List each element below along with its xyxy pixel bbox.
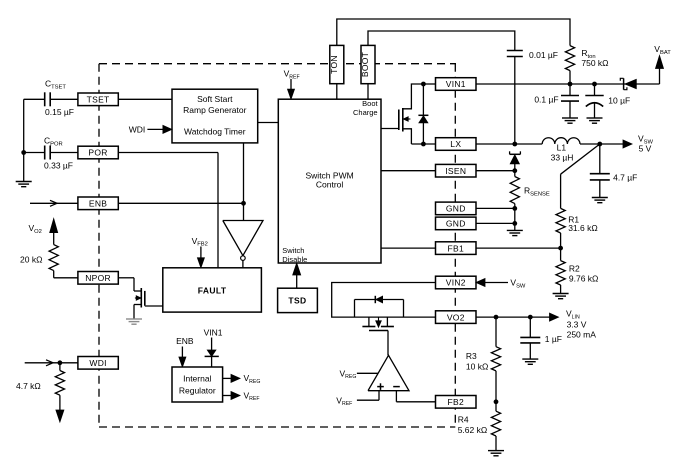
wire Q1 gate from PWM [381,128,399,130]
svg-text:Control: Control [316,180,344,190]
capacitor 0.01 uF bootstrap [507,50,523,52]
svg-text:VIN2: VIN2 [446,278,466,288]
ground R2 [553,293,569,295]
wire 0.1uF to ground [569,101,571,118]
arrow VREF into PWM [290,79,292,91]
ground 4.7 uF [592,197,608,199]
block internal regulator [172,367,223,402]
wire VSW to VIN2 [485,282,508,284]
wire VIN2 to pass FET [332,283,436,318]
block TSD [278,288,318,312]
svg-text:Ramp Generator: Ramp Generator [183,105,246,115]
pin FB1 [436,242,477,255]
wire NPOR to Q2 drain [118,277,134,279]
svg-text:31.6 kΩ: 31.6 kΩ [568,223,598,233]
capacitor 1 uF [529,317,531,337]
node VIN1/Q1 [421,82,426,87]
diode D4 VIN1 into regulator [211,338,213,351]
diode D1 body diode [422,84,424,144]
wire VSW diagonal to R1 [561,144,600,174]
resistor R1 31.6k [556,208,565,233]
pin GND1 [436,202,477,215]
svg-text:Soft Start: Soft Start [197,94,233,104]
pin TSET [78,93,118,106]
diode D3 across pass FET [354,300,356,318]
wire ENB input [30,202,78,204]
resistor R3 10k [495,317,497,347]
wire left ground rail [23,99,25,181]
ground R4 [488,450,504,452]
ground left rail [16,181,32,183]
svg-text:VO2: VO2 [29,223,42,235]
svg-text:VBAT: VBAT [654,44,671,56]
svg-text:VFB2: VFB2 [192,236,208,248]
wire GND2 row [476,222,515,224]
pin VIN1 [436,78,477,91]
ground 10 uF [587,117,603,119]
svg-text:FB2: FB2 [448,397,465,407]
svg-text:TON: TON [329,55,339,74]
IC boundary dashed outline (top edge) [99,63,456,65]
pin LX [436,138,477,151]
svg-text:RSENSE: RSENSE [524,186,550,198]
diode D5 reverse battery [623,78,625,89]
wire POR row left [24,152,45,154]
wire CPOR to POR pin [50,152,78,154]
wire soft-start bottom to ENB node [243,143,245,203]
wire WDI input [25,362,78,364]
wire TON to PWM [336,84,338,100]
wire L1 to VSW [580,143,624,145]
svg-text:VREF: VREF [336,395,352,407]
svg-text:WDI: WDI [89,358,106,368]
wire VREF output [223,395,232,397]
IC boundary dashed outline (bottom edge) [99,426,455,428]
wire WDI annotation arrow [147,128,164,130]
svg-text:VSW: VSW [510,278,526,290]
resistor R4 5.62k [495,402,497,411]
transistor Q3 LDO pass FET [368,317,370,326]
capacitor 0.1 uF [569,84,571,96]
node 10uF/VIN1 [592,82,597,87]
svg-text:Charge: Charge [353,108,378,117]
wire 20k to NPOR [53,271,55,278]
svg-text:10 µF: 10 µF [608,96,630,106]
resistor 4.7 kOhm [59,363,61,371]
node ENB junction [241,201,246,206]
svg-text:VO2: VO2 [447,312,465,322]
wire TON to Rton [337,19,570,46]
wire op-amp minus to FB2 [395,391,397,402]
svg-text:10 kΩ: 10 kΩ [466,362,488,372]
svg-text:GND: GND [446,219,466,229]
svg-text:5 V: 5 V [639,144,652,154]
svg-text:750 kΩ: 750 kΩ [581,58,608,68]
svg-text:L1: L1 [557,143,567,153]
svg-text:CTSET: CTSET [45,79,66,91]
svg-text:ISEN: ISEN [445,166,466,176]
node D1/LX [421,142,426,147]
svg-text:R3: R3 [466,351,477,361]
block FAULT [163,268,262,312]
pin BOOT [361,45,375,83]
node Rton/VIN1 [568,82,573,87]
block switch PWM control [278,99,381,263]
wire FB1 row right [476,247,561,249]
node VO2/R3 [494,315,499,320]
diode D2 zener LX-ISEN [510,153,521,155]
wire 4.7uF to ground [599,180,601,198]
wire VREG output [223,377,232,379]
svg-text:0.33 µF: 0.33 µF [44,161,73,171]
block soft start / watchdog [172,89,258,143]
svg-text:0.01 µF: 0.01 µF [529,50,558,60]
arrow VBAT [659,67,661,84]
ground Q2 source (gray) [126,318,142,320]
arrow 4.7k down [59,395,61,410]
arrowhead ENB input [50,200,57,206]
wire inverter to FAULT [242,260,244,267]
pin ENB [78,197,118,210]
wire 1uF to ground [529,343,531,359]
node CTSET/CPOR rail junction [21,150,26,155]
wire Q3 gate to op-amp [387,331,389,356]
svg-text:250 mA: 250 mA [567,330,597,340]
svg-text:WDI: WDI [129,125,146,135]
node bootstrap/LX [512,142,517,147]
svg-text:33 µH: 33 µH [551,152,574,162]
wire FB1 to PWM [381,247,436,249]
svg-text:4.7 µF: 4.7 µF [613,173,637,183]
svg-text:TSET: TSET [87,95,110,105]
pin VO2 [436,311,477,324]
wire ENB row [118,202,243,204]
wire TSET to soft-start block [118,98,172,100]
inductor L1 33 uH [542,138,580,144]
node FB2/R3/R4 [494,399,499,404]
node VO2/1uF [528,315,533,320]
node GND1/Rsense [512,206,517,211]
resistor RSENSE [514,171,516,177]
svg-text:VIN1: VIN1 [446,79,466,89]
capacitor 10 uF polarized [594,84,596,96]
svg-text:5.62 kΩ: 5.62 kΩ [458,425,488,435]
pin NPOR [78,272,118,285]
arrow VLIN output [550,313,559,321]
ground 1 uF [522,358,538,360]
wire Q1 source [403,129,412,144]
svg-text:VREG: VREG [340,368,357,380]
svg-text:0.15 µF: 0.15 µF [45,107,74,117]
svg-text:POR: POR [88,148,107,158]
wire VO2 row [476,316,550,318]
svg-text:1 µF: 1 µF [545,334,562,344]
wire Q2 gate from FAULT [144,304,146,307]
arrowhead WDI input [46,360,53,366]
svg-text:BOOT: BOOT [360,52,370,77]
svg-text:TSD: TSD [288,295,306,305]
IC boundary dashed outline (left edge) [98,64,100,427]
wire POR row to FAULT [118,152,218,154]
wire BOOT to PWM [367,84,369,100]
wire VIN1 row to VBAT [476,83,660,85]
svg-text:Boot: Boot [362,99,378,108]
svg-text:VREF: VREF [284,69,300,81]
resistor 20 kOhm [49,245,58,271]
svg-text:Regulator: Regulator [179,386,216,396]
wire GND1 row [476,207,515,209]
transistor Q1 high-side switch [402,108,404,132]
svg-text:FAULT: FAULT [198,285,227,295]
pin WDI [78,357,118,370]
arrowhead VIN2 input [476,279,485,287]
wire LX to L1 [476,143,542,145]
svg-text:Internal: Internal [183,374,211,384]
IC boundary dashed outline (right edge) [454,64,456,427]
svg-text:Watchdog Timer: Watchdog Timer [184,127,246,137]
wire ISEN row right [476,170,515,172]
svg-text:20 kΩ: 20 kΩ [20,255,42,265]
wire bootstrap cap to LX [514,57,516,145]
wire CTSET to TSET pin [50,98,78,100]
capacitor CPOR [44,146,46,160]
capacitor 4.7 uF [599,144,601,174]
svg-text:FB1: FB1 [448,243,465,253]
svg-text:R2: R2 [569,264,580,274]
wire BOOT to bootstrap cap [368,31,515,51]
svg-text:ENB: ENB [89,199,107,209]
pin FB2 [436,396,477,409]
wire TSET row left [24,98,45,100]
svg-text:3.3 V: 3.3 V [567,320,587,330]
inverter U2 [223,221,263,256]
svg-text:CPOR: CPOR [44,136,63,148]
node WDI/4.7k junction [58,360,63,365]
svg-text:R4: R4 [458,415,469,425]
wire soft-start to PWM block [258,122,279,124]
svg-text:VREF: VREF [244,390,260,402]
arrow ENB into regulator [181,347,183,359]
wire VREG to op-amp [357,372,378,374]
ground Rsense [507,229,523,231]
node FB1/R1/R2 [558,246,563,251]
node VSW [597,142,602,147]
capacitor CTSET [44,92,46,106]
wire ISEN to PWM [381,170,436,172]
resistor Rton 750 kOhm [565,46,574,71]
svg-text:GND: GND [446,204,466,214]
wire Q1 drain [403,84,424,109]
node GND2/Rsense [512,221,517,226]
resistor R2 9.76k [560,248,562,261]
arrow VFB2 into FAULT [200,247,202,259]
pin ISEN [436,164,477,177]
wire VREF to op-amp plus [357,399,379,401]
arrow VO2 pull-up [50,219,58,233]
arrow TSD switch disable [296,275,298,288]
svg-text:VREG: VREG [244,373,261,385]
pin GND2 [436,217,477,230]
svg-text:4.7 kΩ: 4.7 kΩ [16,381,41,391]
wire VIN1 pin left [423,83,435,85]
arrow VSW output [623,140,632,148]
svg-text:Disable: Disable [282,255,307,264]
svg-text:VIN1: VIN1 [204,328,223,338]
svg-text:NPOR: NPOR [85,273,111,283]
transistor Q2 NPOR open-drain [140,288,142,308]
wire ENB to inverter [243,203,245,220]
svg-text:0.1 µF: 0.1 µF [534,95,558,105]
svg-text:9.76 kΩ: 9.76 kΩ [569,273,599,283]
svg-text:ENB: ENB [176,336,194,346]
ground 0.1 uF [562,117,578,119]
op-amp U3 LDO error amp [368,355,409,390]
pin TON [330,45,344,83]
node zener/ISEN [512,168,517,173]
wire LX row [411,143,435,145]
svg-text:LX: LX [450,139,461,149]
pin VIN2 [436,276,477,289]
pin POR [78,146,118,159]
